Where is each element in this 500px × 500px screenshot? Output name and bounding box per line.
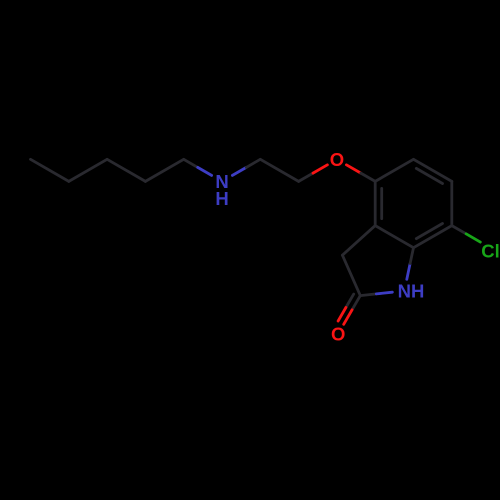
wire bond C3-C2 (CH2 to carbonyl C) xyxy=(342,255,360,295)
wire bond N1-C7a (lactam N to ring) xyxy=(407,264,410,280)
wire bond C7-C7a (benzene edge, double) xyxy=(414,226,452,248)
svg-text:Cl: Cl xyxy=(481,241,500,262)
wire bond O1-C4 (ether O to ring C4) xyxy=(346,165,360,173)
wire bond C2=O2 carbonyl double bond, second line xyxy=(346,294,354,307)
wire bond C2=O2 carbonyl double bond, main line xyxy=(352,296,360,310)
wire bond C11-C10 (pentyl CH2-CH2) xyxy=(107,159,145,181)
wire bond C10-C9 (pentyl CH2-CH2) xyxy=(145,159,183,181)
svg-text:NH: NH xyxy=(398,281,425,302)
wire inner line of C3a=C4 double bond xyxy=(380,188,383,218)
wire bond C7-O1 (CH2 to ether O) xyxy=(299,173,313,181)
wire bond C5-C6 (benzene edge, double) xyxy=(414,159,452,181)
wire bond N2-C8 (amine N to CH2) xyxy=(232,167,246,175)
wire bond C3a-C4 (benzene edge, double) xyxy=(374,181,377,225)
wire inner line of C5=C6 double bond xyxy=(416,168,442,183)
wire bond C7-Cl (to chlorine) xyxy=(452,226,466,234)
wire bond C7a-C3a (benzene fusion edge) xyxy=(375,226,413,248)
svg-text:H: H xyxy=(215,188,228,209)
wire bond C8-C7 (OCH2CH2) xyxy=(260,159,298,181)
wire bond C3a-C3 (to lactam CH2) xyxy=(342,226,375,256)
svg-text:O: O xyxy=(331,324,345,345)
wire bond C2-N1 (carbonyl C to lactam N) xyxy=(360,294,376,296)
wire bond C4-C5 (benzene edge) xyxy=(375,159,413,181)
wire bond C9-N2 (CH2 to amine N) xyxy=(184,159,198,167)
wire bond C13-C12 (pentyl CH3-CH2) xyxy=(31,159,69,181)
svg-text:O: O xyxy=(330,149,344,170)
wire inner line of C7=C7a double bond xyxy=(416,224,442,239)
wire bond C12-C11 (pentyl CH2-CH2) xyxy=(69,159,107,181)
wire bond C6-C7 (benzene edge) xyxy=(450,181,453,225)
